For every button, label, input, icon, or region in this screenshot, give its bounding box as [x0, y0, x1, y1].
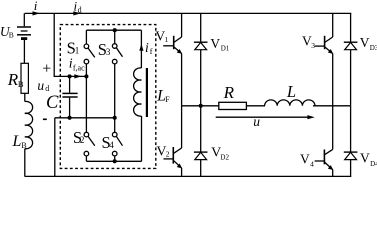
- svg-text:D2: D2: [220, 153, 229, 161]
- svg-text:d: d: [78, 6, 82, 15]
- wire S4 bottom stub: [114, 156, 116, 161]
- node output diode junction: [199, 104, 203, 108]
- transistor V1: [163, 13, 182, 54]
- wire V1 emitter leg: [181, 54, 183, 106]
- node minus-wire capacitor junction: [68, 116, 72, 120]
- wire bridge inner top: [86, 29, 141, 31]
- node plus-wire capacitor junction: [68, 74, 72, 78]
- node minus-wire S3 branch junction: [113, 116, 117, 120]
- wire V_D4 leg: [350, 106, 352, 177]
- svg-text:2: 2: [80, 135, 85, 145]
- svg-text:V: V: [360, 151, 370, 166]
- arrow current i_f_ac: [74, 74, 81, 78]
- resistor R: [219, 102, 247, 109]
- inductor L_F core bar: [146, 68, 148, 117]
- wire R to L: [246, 105, 265, 107]
- svg-text:C: C: [46, 93, 59, 113]
- wire dc-link plus vertical: [54, 13, 86, 76]
- arrow current i_f: [139, 44, 143, 51]
- svg-text:L: L: [12, 133, 22, 150]
- inductor L_F coil: [134, 68, 142, 116]
- wire bottom rail: [25, 175, 352, 177]
- transistor V3: [315, 13, 333, 54]
- switch S2: [84, 132, 95, 156]
- wire V3 emitter leg: [332, 54, 334, 106]
- svg-text:f: f: [150, 47, 153, 56]
- arrow current i: [33, 11, 40, 15]
- svg-text:4: 4: [310, 159, 314, 168]
- diode V_D1: [194, 42, 208, 50]
- wire S2 bottom stub: [85, 156, 87, 161]
- svg-text:1: 1: [75, 46, 80, 56]
- node inner-top S3 junction: [113, 28, 117, 32]
- switch S1: [84, 44, 95, 64]
- svg-text:2: 2: [166, 150, 170, 159]
- transistor V2: [164, 106, 183, 169]
- svg-text:+: +: [42, 61, 51, 78]
- svg-text:L: L: [286, 82, 296, 101]
- svg-text:u: u: [253, 114, 260, 129]
- capacitor C: [62, 93, 77, 97]
- wire bridge inner bottom: [86, 160, 141, 162]
- node plus-wire S1 branch junction: [84, 74, 88, 78]
- svg-text:d: d: [45, 84, 49, 93]
- svg-text:V: V: [360, 35, 370, 50]
- wire S1 top stub: [85, 30, 87, 44]
- wire V_D3 leg: [350, 13, 352, 105]
- arrow voltage u: [216, 115, 315, 119]
- wire V_D2 leg: [200, 106, 202, 177]
- svg-text:V: V: [210, 36, 220, 51]
- svg-text:B: B: [21, 141, 26, 150]
- inductor L_B: [25, 101, 33, 148]
- switch S3: [112, 44, 122, 64]
- wire S3 to S4: [114, 64, 116, 132]
- arrow current i_d: [73, 11, 80, 15]
- svg-text:3: 3: [311, 41, 315, 50]
- wire V4 emitter leg: [332, 170, 334, 177]
- wire battery to R_B: [23, 40, 25, 63]
- svg-text:f,ac: f,ac: [73, 63, 85, 72]
- svg-text:R: R: [223, 83, 235, 102]
- resistor R_B: [21, 63, 28, 93]
- svg-text:i: i: [34, 0, 38, 13]
- transistor V4: [315, 106, 334, 170]
- svg-text:D4: D4: [370, 160, 377, 168]
- svg-text:1: 1: [165, 35, 169, 44]
- svg-text:4: 4: [109, 140, 114, 150]
- battery U_B: [17, 27, 31, 39]
- switch S4: [112, 132, 122, 156]
- svg-text:V: V: [300, 151, 310, 166]
- label minus: [43, 118, 47, 120]
- wire L_F bottom lead: [141, 116, 143, 161]
- wire L_F top lead: [140, 30, 142, 68]
- inductor L: [265, 100, 315, 106]
- wire dc-link minus horizontal: [55, 117, 115, 119]
- svg-text:3: 3: [106, 47, 111, 57]
- svg-text:i: i: [145, 40, 149, 55]
- svg-text:u: u: [37, 78, 44, 93]
- wire L_B to bottom rail: [24, 149, 26, 177]
- svg-text:F: F: [165, 95, 170, 104]
- dashed box auxiliary bridge: [60, 25, 156, 169]
- wire L to right bridge: [313, 105, 351, 107]
- diode V_D3: [344, 42, 358, 50]
- wire capacitor bottom stub: [69, 98, 71, 118]
- wire S3 top stub: [114, 30, 116, 44]
- wire capacitor top stub: [69, 76, 71, 92]
- wire V_D1 leg: [200, 13, 202, 105]
- wire output node left: [182, 105, 219, 107]
- wire battery column top: [23, 13, 25, 26]
- wire dc-link minus vertical: [54, 118, 56, 177]
- svg-text:D1: D1: [221, 45, 230, 53]
- wire S1 to S2: [85, 64, 87, 132]
- wire R_B to L_B: [24, 93, 26, 101]
- wire top rail: [25, 12, 352, 14]
- diode V_D2: [194, 152, 208, 160]
- node inner-bottom S4 junction: [113, 159, 117, 163]
- svg-text:B: B: [9, 30, 14, 39]
- svg-text:D3: D3: [370, 44, 377, 52]
- svg-text:B: B: [18, 79, 24, 89]
- wire V2 emitter leg: [181, 168, 183, 176]
- diode V_D4: [344, 152, 358, 160]
